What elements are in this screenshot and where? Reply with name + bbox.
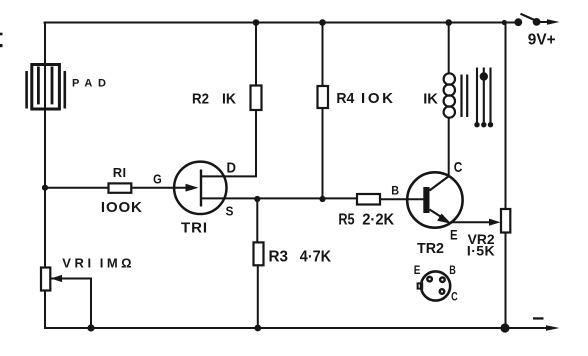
svg-text:VRI: VRI bbox=[62, 256, 91, 271]
svg-text:E: E bbox=[450, 226, 458, 242]
svg-text:IOK: IOK bbox=[361, 90, 393, 107]
svg-text:I·5K: I·5K bbox=[467, 243, 495, 259]
svg-text:IMΩ: IMΩ bbox=[100, 256, 132, 271]
svg-text:R2: R2 bbox=[192, 91, 209, 108]
svg-text:E: E bbox=[414, 263, 421, 277]
svg-text:PAD: PAD bbox=[72, 78, 106, 90]
svg-text:IK: IK bbox=[222, 91, 236, 108]
svg-text:C: C bbox=[451, 290, 458, 304]
svg-text:IOOK: IOOK bbox=[101, 199, 142, 216]
svg-text:IK: IK bbox=[423, 90, 438, 107]
svg-text:4·7K: 4·7K bbox=[300, 248, 332, 265]
svg-text:R4: R4 bbox=[336, 90, 355, 107]
svg-text:C: C bbox=[454, 159, 463, 176]
svg-text:9V+: 9V+ bbox=[528, 32, 556, 49]
svg-text:S: S bbox=[226, 204, 234, 219]
svg-text:RI: RI bbox=[113, 165, 126, 180]
svg-text:D: D bbox=[227, 159, 237, 176]
svg-text:G: G bbox=[153, 172, 162, 187]
svg-text:B: B bbox=[449, 263, 456, 277]
svg-text:R3: R3 bbox=[269, 248, 289, 265]
svg-text:TRI: TRI bbox=[181, 220, 207, 237]
svg-text:2·2K: 2·2K bbox=[362, 211, 394, 228]
svg-text:R5: R5 bbox=[338, 211, 354, 228]
svg-text:TR2: TR2 bbox=[417, 241, 444, 257]
svg-text:B: B bbox=[391, 184, 399, 198]
